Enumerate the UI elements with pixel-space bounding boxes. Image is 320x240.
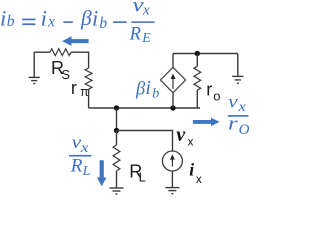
svg-text:x: x: [188, 137, 194, 149]
resistor r_pi: [85, 68, 92, 89]
svg-text:O: O: [239, 122, 250, 138]
svg-text:E: E: [141, 31, 151, 46]
top wire: [173, 53, 238, 55]
svg-text:R: R: [129, 25, 141, 45]
ground (top-right): [232, 54, 243, 84]
wire second level to source: [117, 131, 173, 152]
source ix (circle): [162, 151, 182, 171]
svg-text:i: i: [92, 6, 98, 31]
label RS: [51, 58, 70, 82]
wire r_pi bottom to bus: [88, 89, 90, 108]
svg-text:x: x: [142, 3, 150, 19]
svg-text:b: b: [99, 15, 107, 32]
equation i_b = i_x - beta*i_b - vx/RE: [0, 0, 155, 46]
wire source to ground: [171, 171, 173, 188]
wire ground to RS: [34, 51, 50, 53]
current arrow i_b (blue, pointing left): [62, 36, 89, 46]
resistor r_o: [194, 66, 201, 90]
ground (top-left): [29, 52, 40, 83]
svg-text:x: x: [237, 99, 246, 114]
svg-text:x: x: [80, 140, 89, 155]
node on bus (left): [114, 105, 119, 110]
wire bus node down to second node: [116, 108, 118, 131]
label r_o: [206, 79, 220, 103]
svg-text:v: v: [176, 124, 186, 146]
arrow inside source: [170, 154, 175, 166]
current arrow vx/ro (blue, pointing right): [193, 118, 220, 126]
wire second node down to RL: [116, 131, 118, 146]
svg-text:b: b: [152, 87, 159, 102]
svg-text:r: r: [228, 112, 238, 134]
dependent source beta*i_b (diamond): [160, 67, 185, 93]
svg-text:i: i: [145, 77, 151, 99]
svg-text:i: i: [189, 159, 194, 179]
svg-text:i: i: [41, 6, 47, 31]
fraction vx/ro (blue): [228, 92, 250, 138]
svg-text:r: r: [206, 79, 212, 99]
label ix (black): [189, 159, 202, 186]
svg-text:x: x: [196, 174, 202, 186]
svg-text:L: L: [139, 170, 146, 185]
label RL: [129, 162, 146, 185]
node on bus (under source): [170, 105, 175, 110]
current arrow vx/RL (blue, pointing down): [97, 160, 107, 186]
wire r_o bottom to bus: [196, 90, 198, 108]
wire top node to r_o: [196, 54, 198, 67]
svg-text:x: x: [47, 14, 55, 31]
svg-text:i: i: [0, 6, 6, 31]
resistor RL: [113, 145, 120, 171]
svg-text:o: o: [213, 89, 220, 104]
fraction vx/RL (blue): [69, 133, 92, 179]
svg-text:b: b: [7, 13, 15, 30]
node on top wire: [195, 51, 200, 56]
wire diamond bottom to bus: [172, 93, 174, 108]
resistor RS: [50, 49, 71, 56]
node (second level): [114, 128, 119, 133]
svg-text:β: β: [80, 6, 92, 30]
label beta*i_b: [135, 77, 159, 101]
ground (under source): [165, 188, 179, 194]
label vx (black): [176, 124, 193, 149]
svg-text:v: v: [228, 92, 238, 112]
svg-text:r: r: [71, 78, 77, 98]
svg-text:β: β: [135, 79, 146, 99]
arrow inside diamond: [171, 74, 176, 89]
wire diamond top to top wire: [172, 54, 174, 68]
wire RS to r_pi top: [71, 52, 89, 68]
wire bottom bus: [89, 107, 200, 109]
svg-text:S: S: [61, 67, 70, 82]
label r_pi: [71, 78, 89, 99]
ground (under RL): [110, 188, 124, 194]
svg-text:π: π: [80, 85, 89, 99]
wire RL to ground: [116, 171, 118, 188]
svg-text:L: L: [82, 164, 91, 179]
svg-text:R: R: [70, 155, 83, 176]
